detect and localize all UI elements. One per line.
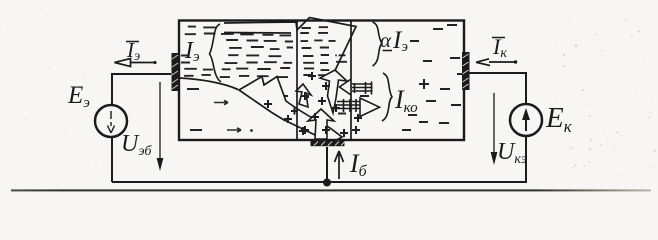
striped arrow right (Iko holes) xyxy=(337,98,380,117)
transistor body rectangle xyxy=(179,21,464,141)
base wire xyxy=(326,147,328,182)
label I_ko xyxy=(394,85,418,116)
emitter region electron dashes xyxy=(181,27,293,78)
emitter lower sparse dashes and small arrows xyxy=(187,89,202,130)
label I_e inside emitter xyxy=(184,38,200,65)
collector wire xyxy=(468,73,526,105)
brace for I_e xyxy=(210,24,222,82)
base contact (hatched) xyxy=(311,141,346,146)
label I_e current arrow (outside, top left) xyxy=(115,59,157,67)
label I_e outside xyxy=(126,38,140,64)
label I_b arrow xyxy=(335,151,344,179)
second electron arrow up (left of it) xyxy=(296,84,311,107)
small arrow lower xyxy=(227,128,253,132)
junction dot xyxy=(323,179,331,187)
label U_eb xyxy=(121,131,152,159)
wire below E_e xyxy=(111,137,113,182)
striped arrow left (Iko electrons) xyxy=(340,79,373,95)
label E_k xyxy=(545,102,573,136)
wire below E_k xyxy=(525,136,527,182)
bottom wire xyxy=(112,181,527,183)
base region electron dashes xyxy=(300,27,347,75)
label I_b xyxy=(349,149,368,180)
base bottom minus signs xyxy=(278,96,369,114)
base-collector junction line xyxy=(350,21,352,141)
collector contact (hatched) xyxy=(462,52,470,90)
arrow inside E_k xyxy=(522,108,530,131)
collector region minus signs xyxy=(402,25,466,130)
emitter-base junction line xyxy=(296,21,298,141)
label U_ke xyxy=(497,139,527,167)
hole recombination arrow into emitter (big left arrow) xyxy=(239,77,342,143)
source E_k circle xyxy=(510,104,542,136)
electron arrow up toward collector junction xyxy=(320,70,347,113)
collector plus sign xyxy=(419,79,429,89)
U_ke arrow xyxy=(491,93,498,165)
label I_k current arrow xyxy=(476,59,517,66)
svg-text:α: α xyxy=(380,28,392,52)
label I_k xyxy=(492,34,507,61)
arrow inside E_e xyxy=(108,111,115,133)
brace for alpha I_e xyxy=(373,22,383,66)
small arrow up at base contact xyxy=(308,109,334,139)
emitter contact (hatched) xyxy=(172,53,180,91)
source E_e circle xyxy=(95,105,127,137)
plus signs along junctions and arrows xyxy=(264,72,362,137)
emitter wire xyxy=(112,74,171,105)
label E_e xyxy=(67,82,90,111)
U_eb arrow xyxy=(157,82,164,171)
shelf line in emitter xyxy=(179,78,238,90)
brace for I_ko xyxy=(382,73,392,121)
hole-flow arrow to collector (alpha Ie), hollow lightning arrow xyxy=(224,18,356,71)
label alpha I_e xyxy=(380,27,408,55)
small arrow (electron drift) in emitter xyxy=(214,100,228,104)
scan speckle noise (decorative) xyxy=(7,5,656,175)
